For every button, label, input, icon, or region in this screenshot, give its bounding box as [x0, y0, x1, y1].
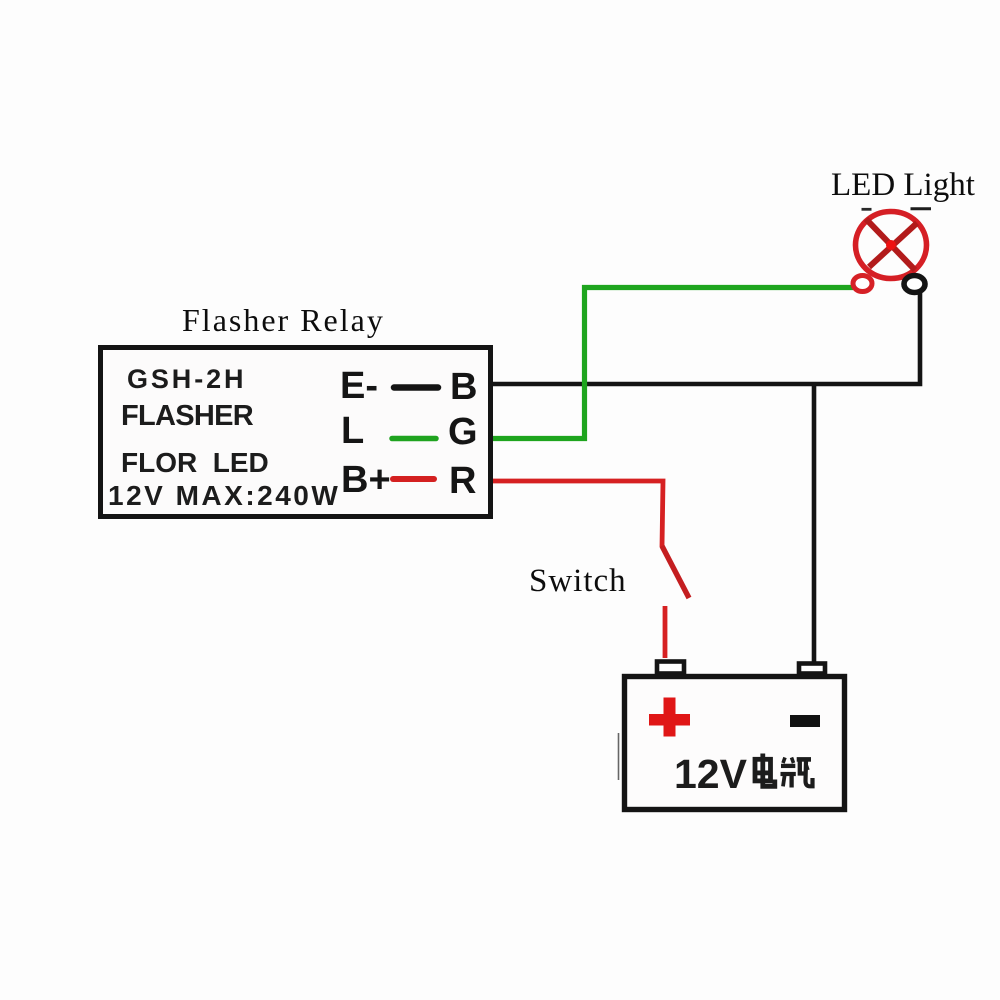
svg-text:LED Light: LED Light — [831, 167, 975, 203]
switch lower contact wire — [663, 606, 668, 658]
lamp cross line 2 — [869, 223, 917, 267]
switch S1 blade — [662, 546, 689, 598]
battery terminal tab positive — [657, 662, 684, 674]
lamp terminal left (red) — [853, 276, 872, 292]
wire R red: relay to switch — [493, 481, 663, 547]
battery text CJK dian — [755, 754, 775, 787]
battery BT1 box — [625, 677, 845, 810]
battery plus symbol — [649, 714, 690, 726]
svg-text:B: B — [450, 366, 477, 408]
svg-text:GSH-2H: GSH-2H — [127, 364, 246, 394]
wire B black: relay to right then up to lamp terminal — [493, 290, 920, 384]
lamp cross line 1 — [866, 219, 915, 270]
battery minus symbol — [790, 715, 820, 727]
svg-text:Flasher Relay: Flasher Relay — [182, 302, 385, 338]
pin dash E-B black — [394, 384, 438, 391]
battery left faint line — [618, 733, 620, 780]
svg-text:FLOR LED: FLOR LED — [121, 447, 269, 478]
lamp top dark remnants — [862, 208, 872, 211]
lamp DS1 circle — [856, 212, 927, 279]
svg-text:E-: E- — [340, 365, 378, 407]
wire black branch down to battery negative — [812, 384, 817, 662]
pin dash B+-R red — [393, 476, 434, 482]
relay U1 flasher box — [101, 348, 491, 517]
svg-text:Switch: Switch — [529, 563, 627, 599]
wire G green: relay to lamp left terminal — [493, 288, 853, 439]
svg-text:FLASHER: FLASHER — [121, 400, 254, 432]
svg-text:L: L — [341, 410, 364, 452]
battery text CJK ping — [781, 758, 813, 788]
lamp center dot — [886, 240, 896, 250]
svg-text:12V: 12V — [674, 751, 748, 797]
lamp terminal right (black) — [904, 276, 925, 293]
svg-text:12V MAX:240W: 12V MAX:240W — [108, 480, 340, 511]
svg-text:B+: B+ — [341, 459, 391, 501]
svg-text:G: G — [448, 411, 478, 453]
battery terminal tab negative — [799, 664, 825, 674]
svg-text:R: R — [449, 460, 476, 502]
pin dash L-G green — [392, 436, 436, 442]
